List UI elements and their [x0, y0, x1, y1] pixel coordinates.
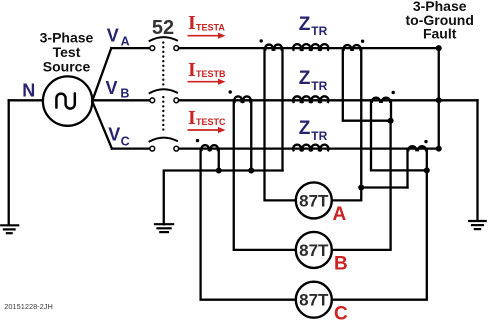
CT1B polarity dot	[229, 90, 232, 93]
CT2B polarity dot	[392, 91, 395, 94]
CT2B secondary lead right (to relay B, through delta node B)	[390, 100, 392, 120]
CT1B primary bumps (phase B left CT)	[234, 96, 251, 101]
svg-text:Fault: Fault	[423, 26, 457, 42]
svg-text:TESTC: TESTC	[196, 117, 226, 127]
junction dot CT1B common	[248, 168, 254, 174]
wire delta node B down to relay B	[332, 121, 391, 250]
svg-text:TR: TR	[311, 79, 327, 93]
relay 87T-B circle	[296, 232, 332, 268]
svg-text:V: V	[108, 124, 120, 144]
breaker 52 pole C arc	[150, 138, 177, 142]
CT1A secondary lead right (to ground bus)	[281, 48, 283, 170]
arrow I TESTC	[188, 129, 220, 131]
svg-text:I: I	[188, 12, 196, 34]
CT1A secondary lead left (to relay A)	[265, 48, 296, 200]
svg-text:87T: 87T	[299, 191, 329, 210]
CT2C polarity dot	[424, 140, 427, 143]
wire delta node C down to relay C	[332, 170, 427, 299]
CT2C secondary lead left (to delta node A)	[406, 149, 408, 188]
wire phase C main segment	[179, 147, 439, 149]
svg-text:Test: Test	[53, 44, 81, 60]
junction dot delta node B	[388, 118, 394, 124]
ground G1 left	[1, 225, 18, 233]
CT2A primary bumps (phase A right CT)	[344, 45, 361, 50]
CT2B secondary lead left (to delta node C)	[371, 100, 427, 170]
CT1A primary bumps (phase A left CT)	[265, 45, 282, 50]
junction dot delta node A	[358, 185, 364, 191]
wire diagonal to VC	[92, 101, 112, 148]
ground bus wire (CT wye common)	[164, 171, 283, 225]
breaker 52 linkage dotted line lower	[162, 97, 164, 134]
svg-text:N: N	[22, 80, 35, 100]
fault bus vertical wire	[438, 48, 440, 149]
source U1 circle	[43, 76, 92, 125]
svg-text:87T: 87T	[299, 291, 329, 310]
junction dot fault phase A	[436, 45, 442, 51]
CT1C primary bumps (phase C left CT)	[201, 145, 218, 150]
breaker 52 linkage dotted line upper	[162, 43, 164, 87]
wire N horizontal	[9, 99, 43, 101]
svg-text:TR: TR	[311, 129, 327, 143]
wire fault to right ground	[476, 100, 478, 221]
wire phase C left segment	[112, 147, 150, 149]
CT2C primary bumps (phase C right CT)	[408, 146, 426, 150]
ground G2 middle	[155, 224, 173, 232]
CT1B secondary lead right (to ground bus)	[250, 100, 252, 170]
svg-text:Z: Z	[299, 68, 311, 89]
svg-text:I: I	[188, 59, 196, 81]
svg-text:52: 52	[152, 17, 174, 39]
relay 87T-C circle	[296, 282, 332, 318]
svg-text:V: V	[106, 78, 118, 98]
svg-text:V: V	[107, 25, 119, 45]
CT2A secondary lead right (to relay A and delta node A)	[332, 48, 361, 200]
junction dot CT1C common	[216, 168, 222, 174]
arrow I TESTB	[188, 81, 220, 83]
inductor ZTR-A	[293, 44, 328, 50]
CT1A polarity dot	[260, 39, 263, 42]
breaker 52 pole C contacts	[150, 146, 179, 151]
CT2C secondary lead right (to relay C, through delta node C)	[426, 149, 428, 171]
source sine symbol	[56, 93, 74, 108]
CT1C secondary lead right (to ground bus)	[218, 149, 220, 171]
wire phase B left segment	[92, 99, 149, 101]
svg-text:Z: Z	[299, 14, 311, 35]
svg-text:Z: Z	[299, 118, 311, 139]
ground G3 right	[469, 221, 486, 229]
CT1C secondary lead left (to relay C)	[201, 149, 296, 300]
junction dot delta node C	[424, 167, 430, 173]
svg-text:A: A	[121, 35, 130, 49]
inductor ZTR-B	[293, 96, 328, 102]
wire diagonal to VA	[92, 48, 111, 101]
svg-text:B: B	[120, 86, 129, 100]
CT1C polarity dot	[196, 139, 199, 142]
svg-text:TESTA: TESTA	[196, 22, 225, 32]
wire phase B main segment to fault corner	[179, 99, 478, 101]
breaker 52 pole B contacts	[150, 98, 179, 103]
wire phase A main segment	[179, 47, 439, 49]
junction dot fault phase C	[436, 146, 442, 152]
wire N vertical drop to ground	[8, 100, 10, 225]
svg-text:TESTB: TESTB	[196, 69, 226, 79]
junction dot fault phase B	[436, 97, 442, 103]
breaker 52 pole A arc	[150, 37, 177, 41]
inductor ZTR-C	[293, 145, 328, 151]
svg-text:A: A	[333, 204, 347, 225]
svg-text:TR: TR	[311, 24, 327, 38]
relay 87T-A circle	[296, 182, 332, 218]
breaker 52 pole A contacts	[150, 46, 179, 51]
svg-text:87T: 87T	[299, 241, 329, 260]
svg-text:Source: Source	[43, 58, 91, 74]
arrow I TESTA	[188, 35, 220, 37]
breaker 52 pole B arc	[150, 89, 177, 93]
CT2A secondary lead left (to delta node B)	[343, 48, 391, 121]
svg-text:I: I	[188, 107, 196, 129]
svg-text:C: C	[334, 304, 348, 320]
CT2A polarity dot	[361, 40, 364, 43]
CT1B secondary lead left (to relay B)	[234, 100, 296, 250]
CT2B primary bumps (phase B right CT)	[372, 98, 390, 102]
wire phase A left segment	[111, 47, 149, 49]
svg-text:20151228-2JH: 20151228-2JH	[4, 302, 53, 311]
wire delta node A to CT2C left lead	[361, 186, 407, 188]
svg-text:B: B	[334, 253, 348, 274]
svg-text:C: C	[121, 134, 130, 148]
